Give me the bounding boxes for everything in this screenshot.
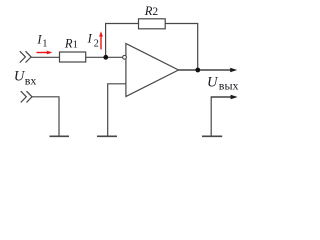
svg-text:I: I [87,32,93,46]
svg-text:вх: вх [25,73,37,87]
svg-text:1: 1 [42,39,47,50]
svg-text:R1: R1 [64,37,78,51]
svg-text:R2: R2 [144,4,159,18]
svg-text:2: 2 [94,39,99,50]
svg-text:U: U [207,75,219,91]
svg-text:вых: вых [219,79,239,93]
